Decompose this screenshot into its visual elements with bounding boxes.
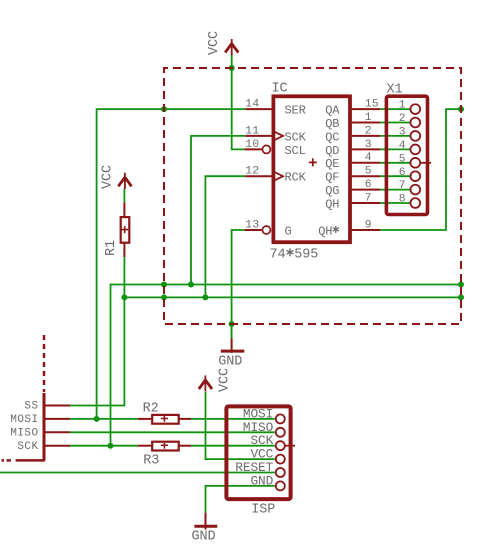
svg-text:7: 7 (399, 180, 406, 192)
svg-text:6: 6 (365, 179, 372, 191)
svg-text:SCL: SCL (285, 144, 306, 158)
svg-text:VCC: VCC (218, 368, 233, 392)
svg-text:VCC: VCC (101, 165, 116, 189)
svg-text:1: 1 (399, 100, 406, 112)
svg-text:10: 10 (245, 139, 259, 151)
svg-text:G: G (285, 224, 292, 238)
svg-text:595: 595 (294, 247, 318, 262)
svg-text:SCK: SCK (285, 130, 307, 144)
svg-text:R1: R1 (104, 240, 119, 256)
svg-text:4: 4 (399, 140, 406, 152)
svg-text:SER: SER (285, 104, 306, 118)
svg-text:9: 9 (365, 219, 372, 231)
svg-text:14: 14 (245, 99, 259, 111)
svg-text:GND: GND (250, 473, 273, 488)
svg-text:7: 7 (365, 192, 372, 204)
svg-text:R2: R2 (143, 401, 159, 416)
svg-text:3: 3 (365, 139, 372, 151)
svg-text:MISO: MISO (10, 428, 38, 440)
svg-text:SCK: SCK (17, 441, 38, 453)
svg-text:ISP: ISP (251, 503, 275, 518)
svg-text:VCC: VCC (207, 31, 222, 55)
svg-text:2: 2 (399, 113, 406, 125)
svg-text:MOSI: MOSI (10, 414, 38, 426)
svg-text:QE: QE (325, 157, 339, 171)
svg-text:6: 6 (399, 167, 406, 179)
svg-text:QA: QA (325, 104, 340, 118)
svg-text:RCK: RCK (285, 171, 307, 185)
svg-text:QD: QD (325, 144, 339, 158)
svg-text:GND: GND (218, 355, 242, 370)
svg-text:QC: QC (325, 130, 339, 144)
svg-text:15: 15 (365, 99, 379, 111)
svg-text:SS: SS (24, 401, 38, 413)
svg-text:QG: QG (325, 184, 339, 198)
svg-text:4: 4 (365, 152, 372, 164)
svg-text:13: 13 (245, 219, 259, 231)
svg-text:8: 8 (399, 194, 406, 206)
svg-text:QF: QF (325, 171, 339, 185)
svg-text:2: 2 (365, 125, 372, 137)
svg-text:IC: IC (272, 82, 288, 97)
svg-text:GND: GND (191, 530, 215, 545)
svg-text:QH: QH (318, 224, 332, 238)
svg-text:5: 5 (365, 166, 372, 178)
svg-text:12: 12 (245, 166, 259, 178)
svg-text:11: 11 (245, 125, 259, 137)
svg-text:QB: QB (325, 117, 339, 131)
svg-text:5: 5 (399, 153, 406, 165)
svg-text:1: 1 (365, 112, 372, 124)
svg-text:3: 3 (399, 127, 406, 139)
svg-text:QH: QH (325, 197, 339, 211)
svg-text:R3: R3 (143, 453, 159, 468)
svg-text:X1: X1 (387, 82, 403, 97)
svg-text:74: 74 (270, 247, 286, 262)
